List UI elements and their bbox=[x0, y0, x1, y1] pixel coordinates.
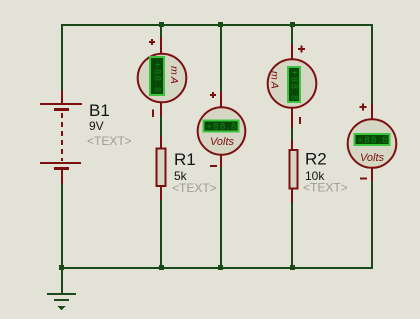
node junction bottom branch 1 bbox=[159, 265, 164, 270]
voltmeter VM2 bbox=[348, 104, 397, 268]
node junction bottom ground tap bbox=[59, 265, 64, 270]
wire ground stem bbox=[61, 267, 63, 293]
wire top horizontal bus bbox=[61, 24, 373, 26]
ammeter AM2 bbox=[268, 26, 317, 140]
svg-text:<TEXT>: <TEXT> bbox=[172, 181, 217, 195]
pin VM2 + bbox=[371, 104, 373, 119]
pin R1 top bbox=[160, 136, 162, 148]
svg-text:9V: 9V bbox=[89, 119, 104, 133]
pin AM2 + bbox=[291, 44, 293, 59]
svg-text:+88.8: +88.8 bbox=[153, 62, 163, 94]
node junction top branch 3 bbox=[290, 22, 295, 27]
wire top bus to VM1 bbox=[220, 26, 222, 91]
label - VM2 bbox=[360, 178, 367, 180]
svg-text:+88.8: +88.8 bbox=[357, 135, 389, 146]
svg-text:Volts: Volts bbox=[360, 152, 385, 164]
ground bbox=[47, 293, 76, 310]
wire bottom horizontal bus bbox=[61, 267, 373, 269]
node junction bottom branch 3 bbox=[290, 265, 295, 270]
LCD display AM2 bbox=[288, 67, 300, 102]
pin R2 top bbox=[291, 140, 293, 150]
wire AM2 to R2 bbox=[291, 128, 293, 140]
label + AM1 bbox=[149, 39, 155, 45]
label + AM2 bbox=[298, 46, 305, 53]
wire left vertical (top of battery) bbox=[61, 24, 63, 90]
pin VM1 - bbox=[220, 155, 222, 167]
label + VM2 bbox=[360, 104, 367, 111]
voltmeter VM1 bbox=[198, 26, 246, 267]
pin AM1 + bbox=[160, 37, 162, 54]
svg-text:B1: B1 bbox=[89, 101, 110, 120]
svg-text:<TEXT>: <TEXT> bbox=[303, 181, 348, 195]
svg-text:+88.8: +88.8 bbox=[290, 70, 300, 102]
node junction bottom branch 2 bbox=[218, 265, 223, 270]
label - AM1 bbox=[152, 110, 154, 118]
pin R2 bottom bbox=[291, 189, 293, 203]
wire VM1 to bottom bus bbox=[220, 167, 222, 267]
wire top bus to AM2 bbox=[291, 26, 293, 44]
svg-text:+88.8: +88.8 bbox=[206, 122, 238, 133]
svg-text:R2: R2 bbox=[305, 150, 327, 169]
pin AM1 - bbox=[160, 102, 162, 116]
svg-text:mA: mA bbox=[168, 66, 180, 86]
node junction top branch 1 bbox=[159, 22, 164, 27]
resistor R1 bbox=[157, 136, 217, 267]
label + VM1 bbox=[210, 92, 216, 98]
svg-text:<TEXT>: <TEXT> bbox=[87, 134, 132, 148]
wire VM2 to bottom bus bbox=[371, 181, 373, 267]
svg-text:Volts: Volts bbox=[210, 136, 235, 148]
wire R1 to bottom bus bbox=[160, 200, 162, 267]
LCD display AM1 bbox=[150, 57, 164, 95]
LCD display VM1 bbox=[204, 121, 239, 132]
ammeter AM1 bbox=[138, 26, 187, 136]
pin VM1 + bbox=[220, 91, 222, 107]
wire top bus to AM1 bbox=[160, 26, 162, 37]
wire battery bottom to bottom bus bbox=[61, 184, 63, 267]
label - VM1 bbox=[210, 165, 217, 167]
pin R1 bottom bbox=[160, 187, 162, 200]
label - AM2 bbox=[299, 117, 301, 124]
LCD display VM2 bbox=[355, 134, 390, 145]
wire right vertical (top of voltmeter VM2) bbox=[371, 24, 373, 104]
resistor R2 bbox=[290, 140, 348, 267]
svg-text:R1: R1 bbox=[174, 150, 196, 169]
battery B1 bbox=[40, 90, 132, 184]
wire AM1 to R1 bbox=[160, 116, 162, 136]
wire R2 to bottom bus bbox=[291, 203, 293, 267]
node junction top branch 2 bbox=[218, 22, 223, 27]
pin AM2 - bbox=[291, 108, 293, 128]
pin VM2 - bbox=[371, 168, 373, 181]
svg-text:mA: mA bbox=[268, 71, 280, 91]
